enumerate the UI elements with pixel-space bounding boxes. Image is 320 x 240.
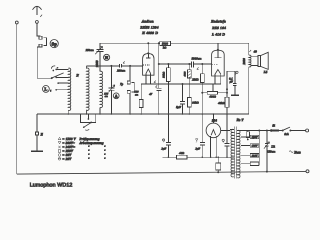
svg-text:Si: Si	[272, 123, 275, 127]
legend line 1: triangle = 1500 V Pruefspannung	[58, 137, 100, 141]
Sp socket upper	[39, 36, 42, 39]
svg-text:μF: μF	[230, 80, 233, 83]
svg-text:80kΩ: 80kΩ	[192, 102, 199, 105]
primary tap wires	[241, 137, 251, 164]
svg-text:= 20V: = 20V	[62, 157, 72, 161]
resistor 44 in heater return	[176, 152, 187, 159]
heater wire	[141, 83, 221, 85]
earth terminal socket	[36, 132, 39, 135]
svg-text:354: 354	[212, 119, 217, 123]
grid capacitor 250cm	[120, 64, 122, 68]
svg-text:110V: 110V	[252, 154, 258, 157]
test mark at bypass cap	[155, 85, 157, 87]
wire L1 bottom to bus	[67, 110, 69, 114]
capacitor A 100cm plates	[108, 88, 114, 90]
resistor to chassis	[217, 157, 219, 163]
mains wire	[237, 130, 271, 132]
cathode resistor box	[139, 100, 143, 108]
wire secondary to heater return	[232, 156, 234, 158]
junction dot bypass line	[158, 42, 160, 44]
wire bypass cap to bus	[158, 91, 160, 114]
V1 anode wire to rail	[147, 43, 149, 53]
phone jack lower socket	[127, 90, 130, 93]
mark at cap2	[196, 139, 198, 143]
branch to 0,1uF cap	[227, 70, 235, 72]
mains terminal lower	[306, 170, 309, 173]
junction dot audio line start	[158, 63, 160, 65]
svg-text:2MΩ: 2MΩ	[192, 78, 198, 82]
wire A cap to bus	[110, 91, 112, 115]
legend line 6: circle-minus = 20V	[58, 157, 106, 161]
B+ bus	[37, 113, 249, 115]
left terminal	[15, 21, 18, 24]
test mark at grid cap	[123, 61, 125, 63]
grid line wire	[87, 65, 143, 67]
svg-text:2000: 2000	[242, 58, 246, 65]
earth branch from bus	[36, 114, 38, 132]
wire H cap to reaction coil	[99, 52, 101, 72]
primary shield box	[246, 131, 249, 141]
wire L3 bottom to bus	[99, 107, 101, 114]
legend line 3: X = 240V=	[58, 145, 106, 149]
wire 2M to bus	[201, 82, 203, 114]
svg-text:4000: 4000	[184, 71, 187, 77]
heater return line	[163, 156, 232, 158]
svg-text:5μF: 5μF	[176, 106, 181, 109]
rectifier tube	[206, 123, 221, 138]
svg-text:cm: cm	[105, 95, 108, 98]
Sp socket lower	[39, 44, 42, 47]
svg-text:250cm: 250cm	[86, 49, 94, 52]
hum resistor 400 box	[212, 84, 214, 91]
svg-text:kΩ: kΩ	[163, 46, 167, 49]
mark at cap3	[222, 139, 224, 141]
mains switch	[278, 130, 282, 132]
LR capacitor line	[266, 131, 268, 172]
svg-text:50kΩ: 50kΩ	[162, 72, 165, 78]
legend line 4: square = 250V	[58, 149, 106, 153]
grid coil L2	[87, 66, 89, 114]
cathode branch wire	[140, 84, 142, 99]
svg-text:7p: 7p	[120, 82, 124, 86]
speaker feed: rail corner down	[248, 43, 250, 55]
svg-text:Sp: Sp	[52, 41, 58, 46]
svg-text:H 4080 D: H 4080 D	[141, 31, 158, 35]
wave switch upper contact	[51, 66, 55, 69]
svg-text:H: H	[105, 55, 109, 60]
svg-text:t: t	[50, 90, 51, 93]
label 100cm cathode	[135, 91, 140, 97]
label A circle	[113, 93, 119, 99]
svg-text:RES 164: RES 164	[211, 26, 226, 30]
V2 anode bar and stem	[215, 50, 222, 58]
label Sp	[50, 40, 58, 48]
test mark circle at 0,1uF	[236, 71, 238, 73]
divider resistor upper box	[188, 63, 190, 65]
test mark at 5000cm	[197, 67, 199, 69]
transformer secondary winding	[231, 129, 234, 177]
tap socket 125V	[250, 144, 258, 148]
V2 grid (dashed)	[212, 64, 219, 66]
svg-text:Endstufe: Endstufe	[210, 19, 226, 23]
svg-text:250cm: 250cm	[117, 69, 125, 72]
svg-text:Lumophon WD12: Lumophon WD12	[30, 182, 73, 188]
svg-text:Audion: Audion	[141, 19, 154, 23]
svg-text:2μF: 2μF	[162, 148, 167, 151]
wire left terminal down left side	[16, 24, 18, 174]
bus junction dots	[68, 113, 228, 115]
LR capacitor plates	[265, 144, 269, 146]
svg-text:400Ω: 400Ω	[209, 96, 216, 99]
legend line 2: down-triangle = 300V~ Arbeitsspannung	[58, 141, 104, 145]
filter cap 1 (2uF)	[167, 114, 169, 157]
mains terminal upper	[306, 129, 309, 132]
V1 filament legs	[146, 73, 151, 84]
label Netz	[289, 150, 301, 154]
rectifier filament legs	[211, 136, 217, 157]
label H circle	[104, 54, 110, 60]
wire antenna terminal to Sp sockets	[37, 23, 41, 36]
svg-text:Sch: Sch	[284, 132, 289, 136]
rectifier filament	[211, 130, 216, 136]
wave range shorting switch below bus	[80, 114, 95, 130]
tap socket 150V	[250, 135, 258, 139]
svg-text:L 416 D: L 416 D	[211, 32, 225, 36]
loudspeaker body	[258, 56, 261, 67]
svg-text:47: 47	[149, 93, 153, 96]
power transformer core	[235, 127, 237, 179]
wire grid line to A cap	[110, 66, 112, 88]
coil tap wires	[55, 69, 68, 91]
V1 top cap	[147, 52, 149, 54]
svg-text:150cm: 150cm	[267, 149, 275, 153]
svg-text:": "	[88, 157, 90, 161]
svg-text:N: N	[75, 73, 79, 77]
filter cap 2 (2uF)	[201, 114, 203, 157]
bias resistor 40k column	[226, 71, 228, 97]
svg-text:150V: 150V	[252, 136, 258, 139]
svg-text:40: 40	[254, 50, 258, 54]
grid leak resistor 50k column	[167, 63, 169, 65]
LR arrow	[264, 142, 270, 149]
antenna symbol	[33, 6, 42, 14]
wire to mains terminal	[290, 130, 305, 132]
test mark triangle at antenna	[40, 15, 42, 17]
wire jacks to bus	[129, 93, 131, 114]
wire 400 box left to divider	[202, 92, 207, 94]
test mark at V1 leg	[154, 81, 156, 83]
variable arrow of H	[95, 46, 102, 54]
svg-text:Netz: Netz	[293, 150, 301, 154]
divider resistor lower box 80k	[187, 98, 191, 107]
svg-text:": "	[104, 157, 106, 161]
svg-text:E: E	[40, 132, 44, 136]
V2 top cap	[217, 49, 219, 51]
wire 50k to bus	[167, 82, 169, 115]
junction dot phone jack branch	[129, 65, 131, 67]
V1 grid (dashed)	[143, 64, 150, 66]
wire to phone jacks	[129, 66, 131, 81]
svg-text:125V: 125V	[252, 145, 258, 148]
Sp shorting bracket	[43, 38, 46, 46]
wire rectifier to transformer	[221, 129, 230, 131]
wave switch blade	[51, 73, 63, 78]
grid leak 2M column	[201, 63, 203, 65]
label 0,1uF	[229, 77, 233, 83]
antenna coil L1	[68, 68, 70, 110]
svg-text:5000cm: 5000cm	[192, 57, 202, 61]
audio coupling line	[159, 63, 212, 65]
capacitor 0,1uF	[234, 71, 236, 83]
svg-text:LS: LS	[263, 70, 268, 74]
wire speaker rail to bus corner	[248, 67, 250, 114]
tube V2 RES164 envelope	[212, 50, 225, 76]
resistor 2MOhm box	[200, 74, 204, 83]
svg-text:Ne T: Ne T	[236, 118, 245, 122]
label 100cm of A	[104, 92, 109, 98]
phone jack bracket	[132, 83, 135, 92]
filter cap 3	[226, 114, 228, 157]
V2 filament legs	[215, 74, 221, 84]
cathode bypass cap 5uF	[182, 83, 184, 85]
anode resistor 5000 in rail	[160, 41, 171, 45]
transformer primary winding	[237, 130, 240, 178]
wire rail corner down to reaction cap H	[99, 43, 101, 49]
ground at 0,1uF	[231, 94, 239, 96]
reaction coil L3	[100, 71, 102, 107]
wire bus to rectifier	[212, 114, 214, 123]
top plate rail	[100, 42, 249, 44]
legend line 5: circle = 80V	[58, 153, 106, 157]
V2 anode wire to rail	[217, 43, 219, 50]
coupling capacitor 5000cm	[191, 62, 193, 68]
tube V1 RENS1204 envelope	[143, 54, 154, 76]
phone jack upper socket	[127, 81, 130, 84]
junction dot A coupling	[110, 65, 112, 67]
V1 anode bar and stem	[146, 54, 150, 59]
svg-text:44Ω: 44Ω	[179, 152, 184, 155]
svg-text:40kΩ: 40kΩ	[218, 102, 225, 105]
svg-text:Arbeitsspannung: Arbeitsspannung	[79, 141, 104, 145]
wire Sp to wave switch	[37, 47, 51, 78]
ground symbol	[31, 150, 43, 152]
wire to lower divider resistor	[188, 78, 190, 97]
speaker coil on rail	[249, 55, 251, 67]
capacitor H 250cm plates	[97, 49, 104, 51]
tick mark at speaker top	[249, 50, 251, 52]
wire cathode resistor to bus	[140, 108, 142, 115]
tap socket 4	[250, 162, 258, 165]
dots on heater return	[168, 156, 228, 158]
svg-text:5000: 5000	[162, 43, 169, 46]
svg-text:L: L	[44, 87, 47, 92]
tap selector bus	[258, 131, 260, 166]
wire 80k to bus	[188, 107, 190, 114]
resistor 50kOhm box	[167, 68, 171, 82]
junction dot audion anode	[147, 42, 149, 44]
speaker connector stubs	[251, 56, 258, 65]
svg-text:A: A	[115, 93, 118, 98]
svg-text:RENS 1204: RENS 1204	[139, 26, 158, 30]
mark at cap1	[163, 139, 165, 141]
wire secondary top to rectifier line	[230, 129, 234, 131]
fuse Si	[271, 129, 278, 132]
wire 400 box right	[218, 92, 227, 94]
bypass capacitor 100cm	[156, 88, 161, 90]
bottom chassis rail	[17, 171, 306, 174]
V2 filament	[215, 70, 221, 75]
loudspeaker cone	[261, 52, 269, 69]
variable arrow of A	[109, 85, 115, 93]
tap socket 110V	[250, 154, 258, 158]
wire to ground	[36, 135, 38, 151]
anode bypass line	[158, 43, 160, 88]
svg-text:cm: cm	[135, 93, 138, 96]
label L switch	[43, 86, 50, 93]
svg-text:LR: LR	[270, 144, 275, 148]
V1 filament	[146, 69, 151, 73]
svg-text:2μF: 2μF	[195, 148, 200, 151]
antenna terminal A	[36, 21, 39, 24]
